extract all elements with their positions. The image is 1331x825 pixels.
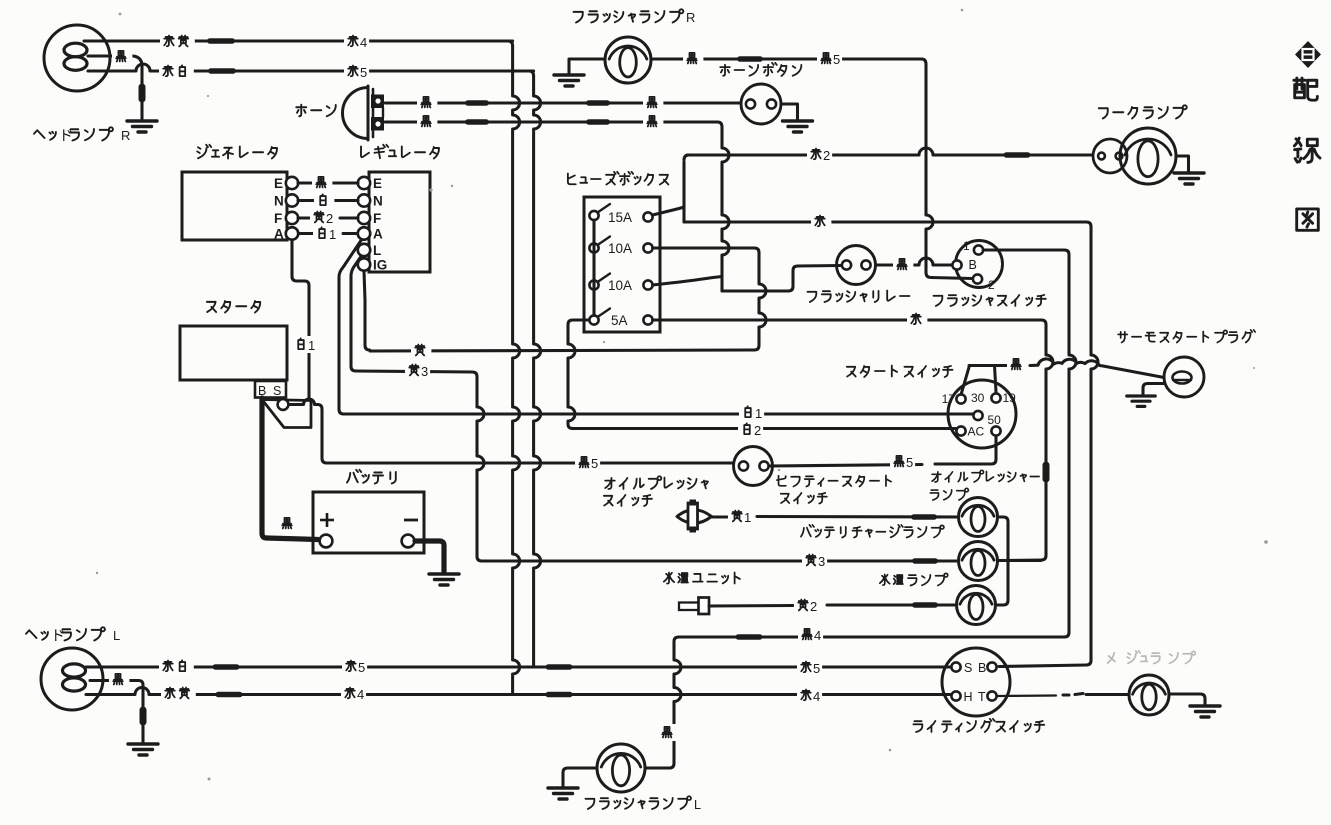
wire yellow horizontal	[370, 345, 759, 351]
label kuro headlampR	[112, 48, 132, 65]
start switch black wire wavy to thermo plug	[1030, 359, 1164, 378]
label ki	[411, 342, 431, 359]
charge lamp right wire	[998, 559, 1041, 562]
flasher switch pin B	[952, 260, 961, 269]
oil pressure switch symbol	[677, 500, 712, 533]
battery box	[313, 492, 424, 553]
svg-text:H: H	[964, 690, 973, 704]
label water temp lamp	[880, 573, 948, 585]
svg-text:A: A	[373, 227, 383, 242]
ground flasher lamp R	[554, 75, 584, 86]
wire black headlamp L to ground	[90, 681, 147, 744]
fuse 15A terminal right	[643, 212, 652, 221]
label water temp unit	[664, 572, 740, 583]
fuse left terminal chain	[592, 220, 595, 316]
connector on red5 top	[208, 68, 236, 74]
wire regulator A to white1	[339, 239, 362, 414]
svg-text:ド: ド	[59, 129, 73, 145]
fuse 10A lever	[598, 274, 611, 283]
connector horn upper 1	[465, 100, 489, 106]
label kuro5 top	[817, 50, 842, 67]
connector horn lower 2	[586, 119, 610, 125]
svg-text:30: 30	[971, 391, 985, 405]
label aka5 bottom left	[342, 658, 367, 675]
label kuro horn upper b	[643, 94, 663, 111]
label aka 222	[811, 213, 831, 230]
wire V9 charge vertical	[1000, 325, 1053, 561]
ground meter lamp	[1190, 706, 1220, 717]
label oil pressure switch	[604, 476, 708, 506]
svg-text:ド: ド	[51, 629, 65, 645]
wire 5A red to charge lamp	[653, 318, 1042, 321]
horn wire lower black to fuse harness	[385, 119, 729, 291]
svg-text:N: N	[274, 194, 284, 209]
logo mark	[1295, 41, 1321, 68]
svg-text:IG: IG	[373, 258, 387, 273]
work lamp ground wire	[1176, 156, 1189, 172]
start switch pins	[956, 393, 1000, 435]
thermo plug ground wire	[1143, 384, 1164, 396]
wire white2 horizontal	[568, 424, 573, 429]
svg-text:15A: 15A	[608, 210, 632, 225]
connector yellow1	[911, 514, 937, 520]
label kuro flasherL	[658, 724, 678, 741]
title kanji hai	[1294, 78, 1317, 100]
oil pressure lamp	[959, 498, 998, 537]
gen-reg link F yellow2	[298, 216, 358, 219]
starter box	[180, 326, 287, 380]
label aka-shiro	[159, 63, 194, 80]
wire white1 horizontal	[344, 412, 973, 415]
wire meter lamp feed	[997, 694, 1129, 697]
label safety start switch	[777, 475, 891, 503]
label aka2	[807, 146, 832, 163]
ground horn button	[783, 121, 813, 132]
horn button ground wire	[781, 104, 798, 120]
label aka4 bottom right	[797, 687, 822, 704]
thermo start plug	[1164, 357, 1204, 397]
connector red2	[1004, 152, 1031, 158]
fuse 10A terminal left	[589, 243, 598, 252]
svg-text:50: 50	[988, 413, 1002, 427]
wire black4	[674, 634, 1064, 641]
svg-text:1: 1	[329, 227, 336, 242]
connector red4 bottom 2	[546, 692, 573, 698]
label kuro battery	[278, 515, 298, 532]
label ki2 F	[310, 209, 335, 226]
label kuro E	[312, 174, 332, 191]
svg-text:19: 19	[1003, 391, 1017, 405]
harness bottom to flasher relay	[722, 266, 841, 292]
label aka-ki	[160, 33, 195, 50]
fuse 5A left stub to V7	[568, 320, 589, 325]
horn body	[343, 86, 385, 140]
wire solenoid to black5	[289, 403, 296, 406]
generator pins	[286, 177, 298, 240]
label aka 320	[907, 311, 927, 328]
starter BS terminal box	[255, 381, 286, 398]
label start switch	[847, 365, 953, 377]
label kuro start	[1007, 356, 1027, 373]
svg-text:4: 4	[360, 35, 367, 50]
label generator	[197, 145, 277, 159]
svg-text:4: 4	[357, 687, 364, 702]
connector blob headlampL	[140, 707, 147, 726]
wire flasher lamp L riser	[674, 642, 681, 764]
headlamp R body	[44, 25, 110, 91]
wire black headlamp R to ground	[88, 56, 146, 120]
svg-text:AC: AC	[968, 425, 985, 439]
safety start switch	[734, 447, 773, 486]
headlamp L body	[41, 648, 103, 710]
ground headlamp R	[127, 121, 157, 132]
fuse 5A terminal left	[589, 315, 598, 324]
label ki3 right	[802, 552, 827, 569]
flasher lamp R	[605, 37, 651, 83]
label ki3 left	[405, 362, 430, 379]
label regulator	[361, 145, 439, 159]
svg-text:B: B	[978, 661, 986, 675]
flasher lamp R ground wire	[569, 59, 605, 74]
gen-reg link N white	[298, 199, 358, 202]
ground flasher lamp L	[548, 788, 578, 799]
wire V7 white2 vertical	[568, 325, 575, 424]
label thermo start plug	[1118, 330, 1255, 343]
connector red5 bottom 2	[546, 664, 573, 670]
svg-text:2: 2	[326, 211, 333, 226]
water temp lamp	[957, 586, 996, 625]
svg-text:1: 1	[308, 338, 315, 353]
svg-text:17: 17	[942, 392, 956, 406]
svg-text:N: N	[373, 194, 383, 209]
svg-text:5: 5	[360, 65, 367, 80]
lamps right bus wire	[996, 517, 1008, 605]
connector yellow2	[912, 602, 938, 608]
svg-text:5: 5	[813, 661, 820, 676]
label headlamp R	[34, 127, 113, 144]
connector blob V9	[1043, 462, 1050, 483]
label aka5	[344, 63, 369, 80]
connector blob	[139, 84, 146, 103]
svg-text:E: E	[274, 176, 283, 191]
fuse 10A lever	[598, 237, 611, 246]
label kuro horn lower a	[417, 113, 437, 130]
battery charge lamp	[959, 542, 998, 581]
label battery charge lamp	[801, 525, 944, 538]
meter lamp	[1129, 675, 1169, 715]
wire red net 222	[684, 220, 1086, 223]
label shiro1 mid	[739, 404, 764, 421]
title kanji sen	[1294, 138, 1320, 162]
svg-text:S: S	[964, 661, 972, 675]
label lighting switch	[913, 719, 1044, 732]
lighting switch pins	[951, 662, 996, 700]
fuse 15A terminal left	[589, 211, 598, 220]
label aka5 bottom right	[797, 659, 822, 676]
wire yellow3 vertical	[477, 377, 484, 557]
svg-text:3: 3	[818, 554, 825, 569]
label kuro headlampL	[109, 671, 129, 688]
svg-text:B: B	[969, 258, 977, 272]
ground battery	[429, 574, 459, 585]
wire generator A down to solenoid	[292, 240, 309, 399]
wire yellow1	[712, 515, 727, 518]
flasher lamp R wire black5 to flasher switch 2	[651, 56, 972, 278]
generator pin letters	[274, 176, 284, 242]
wire regulator IG to yellow	[364, 271, 370, 351]
label flasher lamp L	[585, 796, 691, 809]
label battery	[347, 470, 396, 484]
battery negative cable thick	[415, 541, 444, 572]
connector horn lower 1	[465, 119, 489, 125]
label shiro2	[738, 421, 763, 438]
wire regulator L to yellow3	[351, 255, 477, 377]
label flasher lamp R	[574, 9, 684, 22]
svg-text:F: F	[373, 211, 381, 226]
wire safety to start switch 50	[769, 465, 922, 467]
flasher relay	[837, 246, 876, 285]
fuse 5A lever	[598, 309, 611, 318]
label kuro horn upper a	[417, 94, 437, 111]
fuse 5A terminal right	[643, 315, 652, 324]
wire red5 bottom (red-white)	[86, 664, 956, 670]
regulator box	[369, 172, 430, 272]
label kuro relay	[893, 256, 913, 273]
start switch body	[948, 380, 1016, 448]
flasher lamp L ground wire	[563, 768, 597, 786]
solenoid body	[262, 400, 311, 428]
label work lamp	[1099, 105, 1187, 118]
svg-text:F: F	[274, 211, 282, 226]
svg-text:L: L	[373, 243, 381, 258]
gen-reg link E black	[298, 181, 358, 184]
battery positive cable thick	[262, 398, 318, 540]
horn button	[741, 84, 781, 124]
wire 15A to red2 riser	[653, 207, 684, 215]
regulator pin letters	[373, 176, 387, 273]
work lamp connector circle	[1093, 139, 1127, 173]
svg-text:A: A	[274, 227, 284, 242]
svg-text:4: 4	[813, 689, 820, 704]
label kuro5 right	[890, 453, 915, 470]
label horn button	[720, 63, 801, 76]
svg-text:3: 3	[421, 364, 428, 379]
connector yellow3	[912, 558, 938, 564]
battery plus sign	[320, 513, 334, 527]
svg-text:10A: 10A	[608, 278, 632, 293]
label aka-ki bottom	[161, 685, 196, 702]
wire 10A-1 to harness	[653, 248, 759, 253]
gen-reg link A white1	[298, 232, 358, 235]
svg-text:S: S	[273, 384, 281, 398]
fuse 10A terminal left	[589, 280, 598, 289]
label shiro1 gen tail	[292, 336, 317, 353]
svg-text:R: R	[686, 10, 695, 25]
flasher switch pin 2	[973, 274, 982, 283]
wire red-white red5 second	[88, 64, 534, 74]
lighting switch body	[942, 648, 1010, 716]
connector flasherR wire	[737, 56, 763, 62]
label oil pressure lamp	[930, 470, 1039, 500]
bus wire V1 red4 vertical	[508, 41, 513, 46]
regulator pins overdraw	[286, 227, 370, 270]
water temp unit symbol	[679, 598, 709, 615]
label aka-shiro bottom	[159, 658, 194, 675]
label kuro flasherR	[683, 50, 703, 67]
svg-text:1: 1	[755, 406, 762, 421]
fuse 10A terminal right	[643, 243, 652, 252]
svg-text:L: L	[694, 798, 701, 812]
wire red2	[684, 148, 1093, 222]
fuse 15A lever	[598, 204, 611, 213]
svg-text:L: L	[113, 628, 120, 643]
flasher switch pin 1	[974, 245, 983, 254]
flasher switch pin labels	[963, 239, 995, 292]
wire red-yellow red4 top	[84, 38, 513, 44]
svg-text:1: 1	[744, 510, 751, 525]
label B S	[258, 384, 281, 398]
ground headlamp L	[128, 744, 158, 755]
label flasher switch	[933, 295, 1045, 306]
svg-text:2: 2	[810, 599, 817, 614]
relay to switch B wire	[876, 258, 952, 265]
fuse box	[584, 197, 660, 332]
label horn	[296, 105, 336, 117]
svg-text:5: 5	[906, 455, 913, 470]
battery minus sign	[404, 519, 418, 522]
start switch 17-19 feed bar	[962, 366, 1009, 394]
label headlamp L	[26, 627, 105, 644]
flasher switch	[952, 241, 1002, 288]
label ki1	[728, 508, 753, 525]
horn wire upper black	[385, 100, 741, 106]
svg-text:5: 5	[591, 456, 598, 471]
wire V8 yellow riser	[759, 253, 766, 346]
label aka4 bottom left	[341, 685, 366, 702]
svg-text:T: T	[978, 690, 986, 704]
connector red4 bottom 1	[216, 692, 243, 698]
wire V6 red vertical right	[1091, 227, 1098, 661]
svg-text:10A: 10A	[608, 241, 632, 256]
label fuse box	[568, 172, 669, 185]
wire black5 to safety switch	[327, 461, 733, 464]
connector on red4 top	[207, 38, 235, 44]
svg-text:5A: 5A	[611, 313, 628, 328]
label starter	[207, 301, 260, 313]
generator box	[182, 172, 287, 240]
svg-text:E: E	[373, 176, 382, 191]
svg-text:2: 2	[823, 148, 830, 163]
svg-text:5: 5	[358, 660, 365, 675]
ground work lamp	[1174, 173, 1204, 184]
svg-text:2: 2	[988, 278, 995, 292]
svg-text:5: 5	[833, 52, 840, 67]
connector horn upper 2	[586, 100, 610, 106]
wire red4 bottom (red-yellow)	[86, 688, 956, 698]
title kanji zu	[1297, 209, 1319, 230]
battery terminal minus	[402, 535, 415, 548]
wire yellow3 horizontal	[477, 556, 482, 561]
connector black4	[736, 634, 763, 640]
label aka4	[344, 33, 369, 50]
svg-text:2: 2	[754, 423, 761, 438]
wire 10A-2 to horn vertical	[653, 277, 722, 286]
flasher lamp L	[597, 744, 645, 792]
ground thermo plug	[1127, 396, 1155, 406]
solenoid terminal	[278, 399, 289, 410]
svg-text:1: 1	[963, 239, 970, 253]
flasher switch pin1 wire to V6a	[984, 250, 1069, 255]
start switch pin labels	[942, 391, 1017, 439]
label kuro5 left	[575, 454, 600, 471]
label shiro N	[314, 192, 334, 209]
bus wire V2 red5 vertical	[529, 71, 534, 76]
work lamp bulb	[1120, 128, 1176, 184]
regulator pins	[358, 177, 370, 271]
wire yellow2	[709, 604, 793, 608]
svg-text:4: 4	[814, 628, 821, 643]
label kuro4	[798, 626, 823, 643]
svg-text:R: R	[121, 128, 130, 143]
label kuro horn lower b	[643, 113, 663, 130]
meter lamp ground wire	[1169, 694, 1205, 705]
label flasher relay	[807, 290, 909, 302]
battery terminal plus	[320, 535, 333, 548]
fuse 10A terminal right	[643, 280, 652, 289]
label ki2 bottom	[794, 597, 819, 614]
label shiro1 A	[313, 225, 338, 242]
lighting switch pin labels	[964, 661, 987, 704]
connector red5 bottom 1	[213, 664, 240, 670]
label meter lamp faint	[1108, 651, 1196, 664]
